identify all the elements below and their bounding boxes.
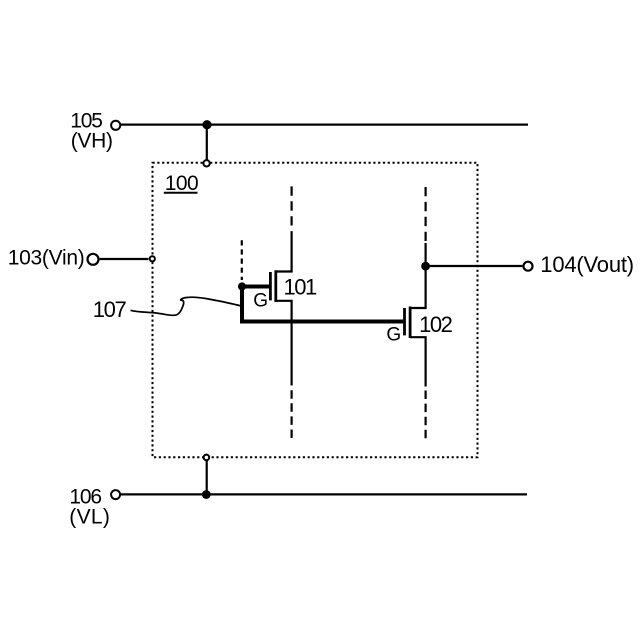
- junction dot on output node: [421, 262, 430, 271]
- transistor 101 drain dashed extension: [291, 186, 293, 236]
- thick gate wire 107: [242, 287, 403, 322]
- junction dot on VL rail: [202, 490, 211, 499]
- transistor 101 source dashed extension: [291, 390, 293, 439]
- transistor 101 channel bar: [274, 270, 277, 302]
- wire Vout: [426, 265, 523, 267]
- terminal 103: [88, 254, 99, 265]
- terminal 106: [111, 490, 120, 499]
- transistor 102 drain lead: [410, 243, 426, 308]
- transistor 101 gate bar: [269, 272, 272, 300]
- svg-text:(VL): (VL): [69, 505, 110, 528]
- svg-text:101: 101: [284, 275, 317, 300]
- svg-text:103(Vin): 103(Vin): [8, 247, 85, 270]
- wire VH rail: [121, 123, 528, 125]
- svg-text:102: 102: [419, 312, 452, 337]
- transistor 102 drain dashed extension: [425, 187, 427, 243]
- svg-text:104(Vout): 104(Vout): [540, 252, 634, 277]
- transistor 102 gate bar: [403, 308, 406, 335]
- terminal 105: [111, 121, 120, 130]
- terminal on block bottom edge: [204, 455, 210, 461]
- transistor 101 source lead: [276, 301, 292, 386]
- leader line 107 squiggle: [131, 297, 242, 315]
- block 100 dotted outline: [153, 163, 478, 458]
- terminal on block top edge: [203, 160, 209, 166]
- wire VL rail: [121, 493, 527, 495]
- wire VH rail to block: [206, 125, 208, 160]
- transistor 102 channel bar: [409, 307, 412, 339]
- wire Vin: [100, 258, 149, 260]
- wire block to VL rail: [206, 458, 208, 494]
- node 107 junction dot: [238, 282, 246, 290]
- terminal on block left edge: [150, 256, 155, 261]
- svg-text:100: 100: [165, 172, 199, 195]
- dashed line above node 107: [241, 240, 243, 280]
- svg-text:(VH): (VH): [71, 130, 113, 153]
- label 100 underline: [164, 192, 198, 194]
- junction dot on VH rail: [202, 120, 211, 129]
- svg-text:107: 107: [93, 297, 127, 322]
- transistor 102 source lead: [410, 337, 426, 386]
- transistor 101 drain lead: [276, 236, 292, 272]
- svg-text:G: G: [253, 290, 268, 311]
- transistor 102 source dashed extension: [425, 391, 427, 440]
- svg-text:G: G: [386, 324, 401, 345]
- terminal 104: [524, 262, 533, 271]
